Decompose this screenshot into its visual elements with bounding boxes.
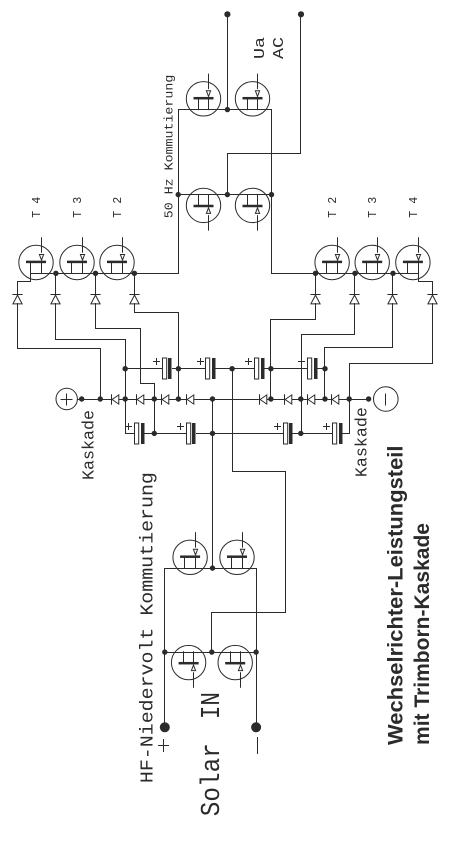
- diode rail Dh: [332, 395, 339, 405]
- terminal Solar +: [160, 722, 170, 732]
- node output B junction: [225, 192, 230, 197]
- wire cascade rail: [78, 399, 369, 401]
- wire HF bottom rail: [256, 569, 258, 728]
- capacitor CU1: [154, 358, 172, 379]
- svg-text:HF-Niedervolt Kommutierung: HF-Niedervolt Kommutierung: [138, 472, 158, 783]
- diode rail Da: [112, 395, 119, 405]
- wire D1 staircase v: [18, 348, 101, 350]
- svg-text:Wechselrichter-Leistungsteil: Wechselrichter-Leistungsteil: [385, 446, 408, 746]
- transistor T2 upper: [100, 238, 134, 280]
- wire crossover d: [212, 612, 286, 614]
- svg-text:Kaskade: Kaskade: [353, 407, 372, 477]
- wire D4 anode: [134, 304, 136, 313]
- svg-text:T 4: T 4: [30, 197, 44, 218]
- node rail junction: [98, 396, 103, 401]
- svg-text:50 Hz Kommutierung: 50 Hz Kommutierung: [163, 75, 177, 219]
- node cap row L junction: [210, 431, 215, 436]
- svg-text:Solar: Solar: [198, 743, 228, 816]
- node HF left center: [209, 649, 214, 654]
- wire D4 staircase v: [135, 312, 179, 314]
- node T-lead junction: [352, 271, 357, 276]
- wire D3 anode: [95, 304, 97, 329]
- transistor 50Hz bridge Q4: [235, 188, 269, 230]
- wire D4' to rail: [270, 320, 272, 400]
- svg-text:T 3: T 3: [366, 197, 380, 218]
- capacitor CU4: [299, 358, 318, 379]
- wire D1' staircase v: [350, 363, 433, 365]
- wire jog D1' a: [418, 274, 420, 282]
- wire D3 staircase v: [96, 328, 141, 330]
- wire D3 jog v: [141, 383, 155, 385]
- wire D1' to rail: [349, 364, 351, 434]
- transistor T4 lower: [396, 238, 430, 280]
- wire HF top rail: [164, 569, 166, 728]
- transistor T2 lower: [315, 238, 349, 280]
- transistor HF Q5: [173, 533, 207, 575]
- wire 50Hz top rail: [178, 110, 180, 274]
- node rail junction: [298, 396, 303, 401]
- wire cap row L seg2: [145, 433, 187, 435]
- wire D2 cathode lead: [55, 274, 57, 295]
- node cap row U junction: [123, 366, 128, 371]
- capacitor CL4: [324, 423, 343, 444]
- wire jog D1' c: [432, 282, 434, 295]
- wire cap row U seg5: [318, 368, 325, 370]
- svg-text:Kaskade: Kaskade: [80, 410, 99, 480]
- diode D1: [13, 295, 22, 304]
- wire output B to bridge: [227, 154, 229, 195]
- wire cap row U seg3: [216, 368, 255, 370]
- svg-text:T 4: T 4: [407, 197, 421, 218]
- node rail junction: [123, 396, 128, 401]
- wire D3' staircase v: [302, 334, 355, 336]
- diode rail Dd: [187, 395, 194, 405]
- diode D3: [91, 295, 100, 304]
- wire 50Hz right lead line: [179, 109, 272, 111]
- wire HF center to rail: [212, 400, 214, 569]
- wire D3' to rail: [301, 335, 303, 434]
- node T-lead junction: [390, 271, 395, 276]
- transistor 50Hz bridge Q1: [186, 74, 220, 116]
- node cap row U junction: [322, 366, 327, 371]
- capacitor CL3: [275, 423, 293, 444]
- wire HF left lead line: [165, 652, 257, 654]
- wire AC output A: [227, 15, 229, 110]
- wire D2' cathode lead: [392, 274, 394, 295]
- label plus: [163, 740, 165, 752]
- diode rail Dg: [308, 395, 315, 405]
- node rail junction: [366, 396, 371, 401]
- wire crossover b: [233, 471, 286, 473]
- node HF bottom-left: [253, 649, 258, 654]
- wire D4 cathode lead: [134, 274, 136, 295]
- node HF right center: [210, 565, 215, 570]
- wire D2 staircase v: [56, 339, 126, 341]
- diode D4': [311, 295, 320, 304]
- transistor HF Q8: [218, 645, 252, 687]
- transistor HF Q7: [171, 645, 205, 687]
- diode rail De: [260, 395, 267, 405]
- diode D1': [428, 295, 437, 304]
- wire D3' anode: [354, 304, 356, 335]
- wire D1 to rail: [100, 349, 102, 400]
- wire D1' anode: [432, 304, 434, 364]
- wire output B riser: [228, 153, 301, 155]
- node T-lead junction: [93, 271, 98, 276]
- wire 50Hz left lead line: [179, 194, 272, 196]
- node rail junction: [152, 396, 157, 401]
- wire jog D1 c: [17, 282, 19, 295]
- node rail junction: [210, 396, 215, 401]
- svg-text:AC: AC: [272, 37, 288, 59]
- wire D3' cathode lead: [354, 274, 356, 295]
- diode rail Df: [285, 395, 292, 405]
- terminal Ua/AC B: [298, 11, 304, 17]
- node cap row L junction: [298, 431, 303, 436]
- capacitor CL1: [126, 423, 145, 444]
- svg-text:T 2: T 2: [111, 197, 125, 218]
- wire 50Hz bottom rail: [271, 110, 273, 274]
- transistor T4 upper: [19, 238, 53, 280]
- wire D3 to rail: [154, 384, 156, 434]
- wire D2' anode: [392, 304, 394, 348]
- label minus: [257, 738, 259, 754]
- svg-text:T 3: T 3: [71, 197, 85, 218]
- node 50Hz top-left: [176, 192, 181, 197]
- transistor 50Hz bridge Q3: [186, 188, 220, 230]
- wire D2 anode: [55, 304, 57, 340]
- wire cap row U seg4: [265, 368, 308, 370]
- wire cap row L seg4: [293, 433, 333, 435]
- terminal Ua/AC A: [224, 11, 230, 17]
- terminal Kaskade -: [374, 387, 399, 412]
- wire D4' cathode lead: [315, 274, 317, 295]
- diode rail Db: [137, 395, 144, 405]
- wire D4' staircase v: [271, 319, 316, 321]
- wire jog D1 a: [30, 274, 32, 282]
- terminal Solar -: [251, 722, 261, 732]
- node T-lead junction: [53, 271, 58, 276]
- wire D2' staircase v: [325, 347, 393, 349]
- node rail junction: [268, 396, 273, 401]
- transistor T3 upper: [60, 238, 94, 280]
- wire cap row L seg1: [126, 433, 135, 435]
- diode D3': [350, 295, 359, 304]
- wire crossover c: [285, 472, 287, 613]
- wire D4 to rail: [178, 313, 180, 400]
- node T-lead junction: [132, 271, 137, 276]
- capacitor CU3: [246, 358, 265, 379]
- svg-text:mit Trimborn-Kaskade: mit Trimborn-Kaskade: [411, 523, 434, 745]
- capacitor CU2: [198, 358, 216, 379]
- wire cap row L seg3: [197, 433, 284, 435]
- transistor T3 lower: [355, 238, 389, 280]
- node cap row U junction: [229, 366, 234, 371]
- diode D2': [388, 295, 397, 304]
- terminal Kaskade +: [56, 388, 77, 409]
- wire crossover a: [232, 369, 234, 472]
- node cap row U junction: [176, 366, 181, 371]
- wire cap row U seg1: [126, 368, 163, 370]
- wire jog D1' b: [419, 281, 433, 283]
- wire upper T-column lead line: [31, 273, 179, 275]
- node 50Hz bottom-left: [269, 192, 274, 197]
- node rail junction: [347, 396, 352, 401]
- node cap row L junction: [152, 431, 157, 436]
- diode D4: [130, 295, 139, 304]
- node HF top-left: [162, 649, 167, 654]
- diode rail Dc: [162, 395, 169, 405]
- node rail junction: [79, 396, 84, 401]
- wire D3 jog h: [140, 329, 142, 384]
- capacitor CL2: [178, 423, 196, 444]
- wire D2 to cap row: [125, 340, 127, 434]
- transistor 50Hz bridge Q2: [235, 74, 269, 116]
- wire D1 anode: [17, 304, 19, 349]
- wire D4' anode: [315, 304, 317, 320]
- wire D2' to cap row: [324, 348, 326, 400]
- node rail junction: [322, 396, 327, 401]
- svg-text:Ua: Ua: [253, 37, 269, 59]
- wire jog D1 b: [18, 281, 31, 283]
- wire AC output B: [300, 15, 302, 154]
- svg-text:T 2: T 2: [326, 197, 340, 218]
- diode D2: [51, 295, 60, 304]
- node output A junction: [225, 107, 230, 112]
- wire HF right lead line: [165, 568, 257, 570]
- node cap row U junction: [268, 366, 273, 371]
- wire lower T-column lead line: [272, 273, 419, 275]
- node T-lead junction: [313, 271, 318, 276]
- wire cap row U seg2: [173, 368, 206, 370]
- wire D3 cathode lead: [95, 274, 97, 295]
- svg-text:IN: IN: [198, 692, 228, 719]
- wire cap row L seg5: [343, 433, 350, 435]
- transistor HF Q6: [220, 533, 254, 575]
- wire crossover e: [211, 613, 213, 653]
- node rail junction: [176, 396, 181, 401]
